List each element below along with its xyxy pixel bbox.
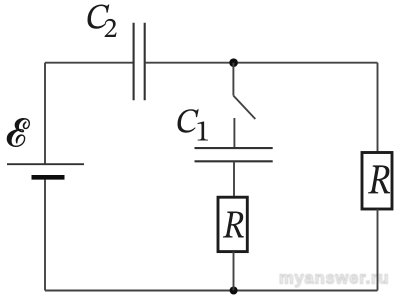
switch blade (open) bbox=[233, 96, 255, 119]
label C1 bbox=[178, 109, 208, 140]
wire: right rail upper bbox=[377, 63, 379, 153]
wire: switch upper lead from top node bbox=[232, 63, 234, 96]
switch lower contact lead bbox=[233, 118, 235, 148]
wire: top left segment (left rail to C2) bbox=[45, 62, 134, 64]
wire: bottom rail bbox=[45, 290, 378, 292]
label C2 bbox=[88, 4, 117, 37]
svg-text:myanswer.ru: myanswer.ru bbox=[279, 270, 389, 288]
wire: middle resistor to bottom node bbox=[233, 252, 235, 291]
capacitor C1 plates bbox=[195, 148, 273, 161]
resistor R (right) box bbox=[362, 153, 392, 210]
label EMF script E bbox=[7, 118, 30, 147]
battery source: long thin plate bbox=[7, 163, 84, 165]
node: bottom junction dot bbox=[230, 287, 238, 295]
wire: right rail lower bbox=[377, 209, 379, 291]
battery source: short thick plate bbox=[32, 175, 65, 180]
resistor R (middle) box bbox=[218, 197, 247, 251]
node: top junction dot bbox=[229, 58, 238, 67]
wire: left rail lower bbox=[44, 180, 46, 291]
wire: C1 to middle resistor bbox=[233, 161, 235, 197]
label R (middle) bbox=[223, 212, 244, 238]
capacitor C2 plates bbox=[134, 23, 145, 101]
wire: left rail upper bbox=[44, 63, 46, 164]
label R (right) bbox=[368, 165, 390, 193]
wire: top right segment (C2 to right rail) bbox=[145, 62, 378, 64]
